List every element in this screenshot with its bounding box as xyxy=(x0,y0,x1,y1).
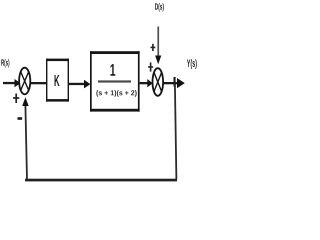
left feedback wire up xyxy=(25,105,27,180)
block G transfer function xyxy=(90,51,140,111)
wire G to S2 xyxy=(140,82,149,84)
label K xyxy=(55,75,60,86)
fraction bar xyxy=(98,80,131,82)
arrowhead output Y xyxy=(177,78,185,88)
label numerator 1 xyxy=(110,64,115,76)
wire S1 to K xyxy=(30,82,46,84)
wire D(s) down xyxy=(157,27,159,57)
label R(s) xyxy=(1,59,9,67)
arrowhead into G xyxy=(84,80,90,89)
plus sign (S2 left input) xyxy=(148,62,153,71)
summing junction S2 xyxy=(153,68,164,96)
label D(s) xyxy=(155,3,164,11)
bottom feedback wire xyxy=(25,179,177,182)
takeoff wire down right xyxy=(175,84,177,180)
wire S2 to output xyxy=(163,82,178,84)
label Y(s) xyxy=(187,59,197,69)
arrowhead feedback into S1 xyxy=(22,97,29,106)
summing junction S1 xyxy=(19,68,30,95)
wire input R(s) xyxy=(3,82,15,84)
minus sign (feedback) xyxy=(18,117,23,120)
wire K to G xyxy=(69,83,85,85)
takeoff junction tick xyxy=(174,77,176,87)
plus sign (D input) xyxy=(151,44,156,51)
arrowhead into S2 xyxy=(147,79,152,87)
arrowhead D down xyxy=(155,56,161,65)
arrowhead input xyxy=(15,79,21,87)
label denominator (s+1)(s+2) xyxy=(96,90,136,97)
block K xyxy=(46,59,69,102)
plus sign (R input) xyxy=(13,94,19,104)
